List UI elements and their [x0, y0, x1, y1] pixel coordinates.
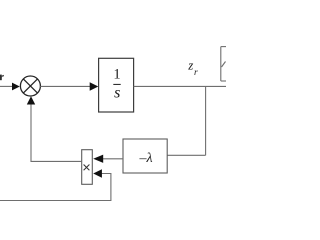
svg-text:r: r [194, 68, 198, 78]
summing junction (circle with X) [20, 76, 40, 96]
arrowhead into summer bottom [27, 96, 35, 104]
arrowhead into multiplier lower [93, 169, 102, 177]
wire branch to -lambda input [167, 154, 205, 156]
node r (input label, cut off at left edge) [0, 75, 4, 81]
arrowhead into integrator [90, 82, 99, 91]
label 1/s [113, 67, 120, 102]
arrowhead into summer [12, 83, 20, 91]
wire -lambda output to multiplier [103, 158, 123, 160]
wire input line into summer [0, 85, 13, 87]
integrator block 1/s [99, 58, 134, 112]
saturation curve fragment inside [222, 62, 226, 68]
svg-text:1: 1 [113, 67, 120, 83]
wire summer to integrator [40, 85, 90, 87]
block -lambda [123, 139, 167, 173]
multiplier block x [82, 150, 93, 185]
label x [84, 165, 90, 171]
arrowhead into multiplier upper [93, 155, 103, 163]
svg-text:z: z [187, 58, 193, 73]
block at right edge (cut off) [221, 47, 226, 81]
wire integrator output to right edge [134, 85, 226, 87]
svg-text:s: s [114, 84, 120, 101]
svg-text:–λ: –λ [138, 151, 152, 166]
wire bottom feedback [0, 174, 111, 201]
wire branch from z_r line down [205, 86, 207, 155]
wire multiplier output to summer [31, 104, 82, 161]
